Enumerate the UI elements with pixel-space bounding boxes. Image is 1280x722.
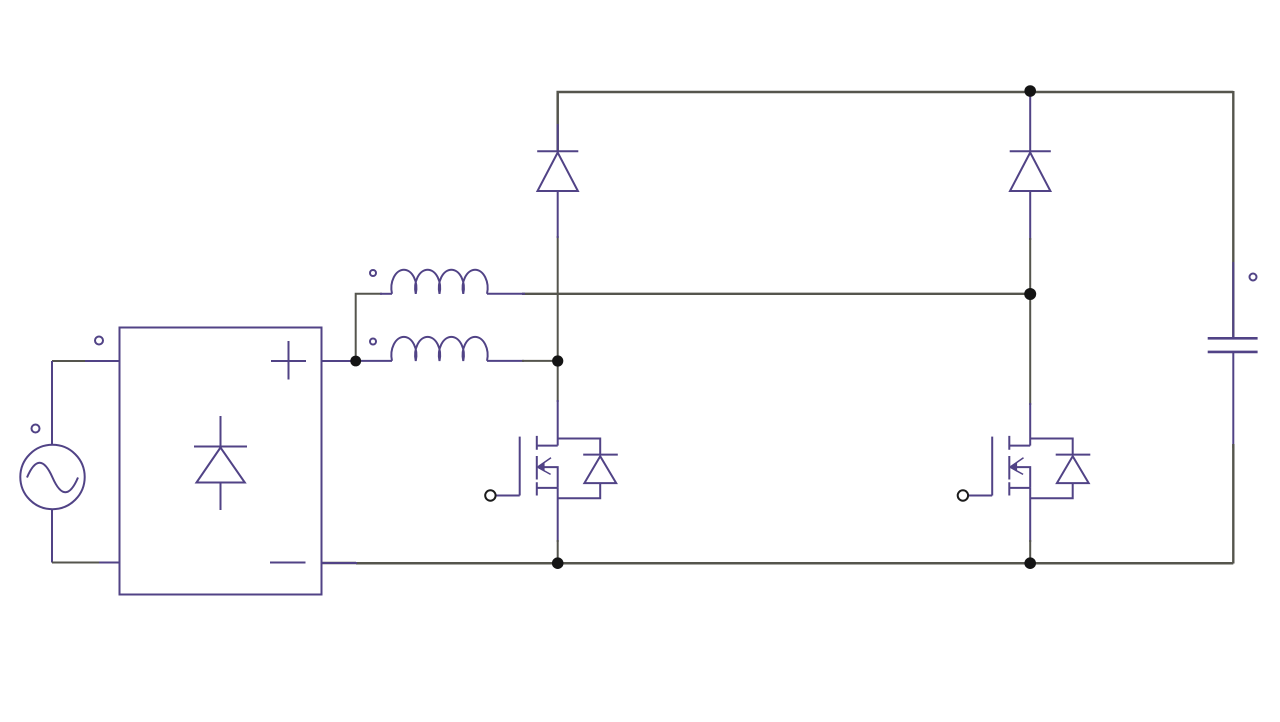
- wire D2 anode stub (purple): [1029, 191, 1031, 240]
- AC source V1 sine wave: [27, 463, 78, 493]
- wire AC source top vertical (purple): [51, 361, 53, 445]
- junction dot L2 output / Q1 drain: [552, 355, 563, 366]
- inductor L2: [391, 337, 487, 361]
- wire Q2 drain vertical from phase-2 node: [1029, 294, 1031, 405]
- bridge rectifier diode symbol: [194, 416, 247, 510]
- Q1 source horizontal: [537, 487, 558, 489]
- junction dot bridge plus / inductors: [350, 356, 361, 367]
- Q2 body arrow barbs: [1011, 458, 1024, 475]
- Q2 drain horizontal: [1009, 445, 1030, 447]
- wire Q1 source to bottom rail: [557, 540, 559, 563]
- Q1 drain horizontal: [537, 445, 558, 447]
- node circle near L1 dot terminal: [370, 270, 376, 276]
- inductor L1: [391, 270, 487, 294]
- wire Q1 drain vertical from junction: [557, 361, 559, 402]
- wire Q1 source lead (purple): [557, 488, 559, 542]
- wire L2 output to Q1 drain junction: [522, 360, 558, 362]
- Q2 body arrow head: [1009, 462, 1017, 472]
- bridge rectifier plus label: [271, 341, 306, 380]
- node circle above AC top wire: [95, 337, 103, 345]
- Q2 gate terminal circle: [958, 490, 968, 500]
- wire Q2 drain lead (purple): [1029, 403, 1031, 446]
- Q2 source horizontal: [1009, 487, 1030, 489]
- Q1 body arrow barbs: [538, 458, 551, 475]
- Q2 channel segments: [1008, 436, 1010, 496]
- wire D1 anode stub (purple): [557, 191, 559, 238]
- Q1 body-diode top link: [558, 439, 601, 455]
- wire mid rail from L1 output to phase-2 node: [522, 293, 1031, 295]
- AC source V1 circle: [20, 445, 84, 509]
- transistor Q1 MOSFET with body diode: [485, 436, 618, 501]
- wire AC source bottom vertical (purple): [51, 509, 53, 563]
- wire AC source top lead into bridge (purple): [85, 360, 119, 362]
- wire L2 output lead (purple then gray) to MOSFET drain node: [487, 360, 524, 362]
- Q1 body horizontal with link to source: [540, 467, 558, 488]
- junction dot Q1 source / bottom rail: [552, 557, 564, 569]
- transistor Q2 MOSFET with body diode: [958, 436, 1091, 501]
- wire top rail from D1 cathode to top-right corner: [558, 92, 1234, 151]
- Q1 gate electrode bar: [519, 437, 521, 496]
- wire L1 output lead (purple): [487, 293, 525, 295]
- Q2 body-diode bottom link: [1030, 483, 1073, 498]
- wire D1 anode down to mid-wire crossing and Q1 drain junction: [557, 236, 559, 361]
- wire L1 input link: vertical from junction up and across to L1: [356, 294, 382, 361]
- Q1 body-diode cathode bar: [583, 454, 618, 456]
- wire right vertical from capacitor bottom to bottom-right corner: [1232, 444, 1234, 564]
- Q2 body-diode top link: [1030, 439, 1073, 455]
- bridge rectifier B1 box: [120, 328, 322, 595]
- wire Q2 source lead (purple): [1029, 488, 1031, 542]
- Q2 gate electrode bar: [991, 437, 993, 496]
- Q1 gate terminal circle: [485, 490, 495, 500]
- wire D1 cathode stub up to top rail (purple): [557, 124, 559, 151]
- Q1 body-diode triangle: [584, 456, 616, 483]
- wire bottom rail from bridge minus lead to bottom-right corner: [322, 562, 1234, 565]
- diode D1 boost diode: [537, 151, 578, 191]
- wire bridge plus lead to junction (purple): [322, 360, 357, 362]
- junction dot mid rail / phase-2: [1024, 288, 1036, 300]
- Q1 channel segments: [536, 436, 538, 496]
- wire Q2 source to bottom rail: [1029, 540, 1031, 563]
- node circle near L2 dot terminal: [370, 339, 376, 345]
- wire L2 input lead from junction (purple): [356, 360, 392, 362]
- bridge rectifier minus label: [270, 562, 306, 564]
- wire AC source top horizontal: [52, 360, 87, 362]
- Q2 body horizontal with link to source: [1013, 467, 1031, 488]
- wire D2 cathode stub up to top rail (purple): [1029, 96, 1031, 151]
- node circle left of AC source: [32, 425, 40, 433]
- Q2 gate lead: [968, 495, 992, 497]
- wire D2 anode down to phase-2 node: [1029, 238, 1031, 294]
- wire AC source bottom horizontal: [52, 562, 101, 564]
- junction dot D2 cathode / top rail: [1024, 85, 1036, 97]
- wire capacitor bottom lead (purple): [1232, 352, 1234, 448]
- wire AC bottom lead into bridge (purple): [99, 562, 119, 564]
- junction dot Q2 source / bottom rail: [1024, 557, 1036, 569]
- Q2 body-diode triangle: [1057, 456, 1089, 483]
- Q1 body arrow head: [537, 462, 545, 472]
- node circle near output capacitor: [1250, 274, 1257, 281]
- Q1 gate lead: [496, 495, 520, 497]
- Q2 body-diode cathode bar: [1056, 454, 1091, 456]
- Q1 body-diode bottom link: [558, 483, 601, 498]
- capacitor C1 plates: [1208, 338, 1258, 352]
- wire L1 input lead stub (purple): [380, 293, 392, 295]
- wire bridge minus lead stub (purple): [322, 562, 358, 564]
- wire Q1 drain lead (purple): [557, 400, 559, 446]
- wire right vertical from top-right corner down to capacitor top plate: [1232, 91, 1234, 338]
- wire capacitor top lead (purple): [1232, 262, 1234, 338]
- diode D2 boost diode: [1010, 151, 1051, 191]
- wires and components inserted here: [52, 91, 1233, 564]
